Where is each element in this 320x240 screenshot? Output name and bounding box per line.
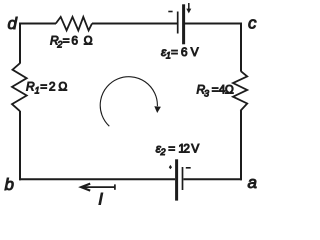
loop direction arrow arc (100, 77, 157, 127)
battery E1 negative plate (177, 12, 179, 34)
wire top-right (E1 to c) (185, 23, 242, 25)
svg-text:d: d (8, 14, 18, 33)
battery E2 positive plate (175, 159, 178, 200)
wire right upper (c to R3) (240, 23, 242, 72)
current arrow I shaft (83, 186, 115, 188)
battery E2 minus sign (186, 167, 191, 169)
wire top-middle (R2 to battery E1) (92, 23, 177, 25)
resistor R3 (233, 71, 247, 110)
svg-text:c: c (248, 14, 257, 33)
svg-text:ε2=12V: ε2=12V (156, 141, 200, 157)
wire right lower (R3 to a) (240, 111, 242, 181)
current arrow I end tick (114, 184, 116, 189)
svg-text:b: b (5, 175, 14, 194)
wire bottom-left (E2 to b) (19, 178, 175, 180)
battery E1 polarity arrow (186, 3, 191, 13)
svg-text:a: a (248, 173, 257, 192)
loop direction arrowhead (154, 106, 161, 113)
battery E1 minus sign (168, 11, 172, 13)
wire left upper (d to R1) (19, 23, 21, 64)
current arrow I head (81, 184, 90, 191)
svg-text:R2=6Ω: R2=6Ω (50, 33, 93, 49)
svg-text:R3=4Ω: R3=4Ω (197, 82, 234, 98)
resistor R2 (56, 17, 92, 31)
svg-text:ε1=6V: ε1=6V (161, 45, 199, 61)
svg-text:I: I (98, 189, 103, 208)
battery E2 plus marker (169, 165, 172, 169)
wire left lower (b to R1) (19, 111, 21, 180)
battery E2 negative plate (182, 167, 184, 190)
wire top-left (d to R2) (19, 23, 56, 25)
resistor R1 (12, 63, 27, 111)
svg-text:R1=2Ω: R1=2Ω (26, 79, 67, 95)
wire bottom-right (a to battery E2) (184, 178, 243, 180)
battery E1 positive plate (182, 4, 185, 44)
